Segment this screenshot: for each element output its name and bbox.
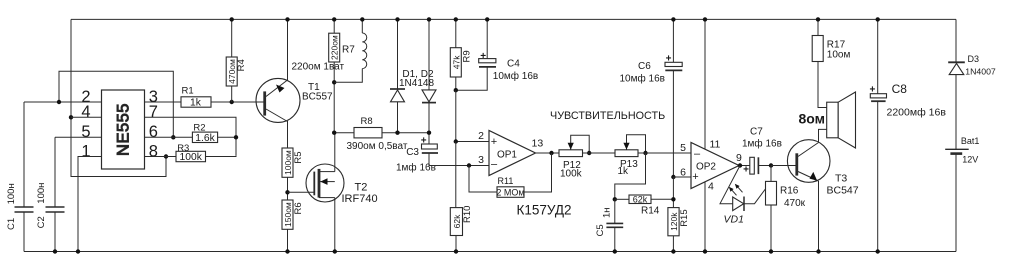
transistor T3 BC547 [771,140,859,197]
node T1 emitter rail junction [285,17,289,21]
wire pin6 line [673,176,691,178]
node R6 ground junction [285,249,289,253]
svg-text:D3: D3 [968,54,980,64]
node pin4 ground junction [703,249,707,253]
svg-text:R6: R6 [293,202,304,214]
wire pin 7 to R2/R3 column [145,117,237,156]
svg-text:220ом: 220ом [330,35,340,60]
capacitor C3 1мф 16в [396,136,489,174]
wire pin 3 line [145,101,182,103]
node C7 right junction [769,163,773,167]
svg-text:R14: R14 [641,206,660,217]
svg-text:1мф 16в: 1мф 16в [742,138,782,150]
node pin2 junction [57,100,61,104]
svg-text:Bat1: Bat1 [961,136,980,146]
svg-text:1k: 1k [618,166,630,177]
wire left rail corner down to pin 4 [70,19,72,117]
capacitor C2 [36,137,65,253]
wire R2 right lead [218,136,236,138]
svg-text:+: + [692,171,698,183]
svg-text:R8: R8 [361,116,373,127]
svg-text:R2: R2 [193,122,205,133]
node R14 right junction [671,197,675,201]
node OP1 pin2 junction [454,139,458,143]
wire pin6 node down to R14 right / R15 [672,177,674,208]
svg-text:C2: C2 [36,216,47,228]
svg-text:390ом 0,5ват: 390ом 0,5ват [347,141,408,152]
svg-text:R9: R9 [462,50,473,62]
wire P13 node to OP2 pin 5 [638,152,691,154]
wire pin2-pin6 tie over chip [59,71,173,137]
node pin4 junction [69,115,73,119]
wire pin 5 line [55,136,102,138]
svg-text:R4: R4 [236,59,247,71]
svg-text:R15: R15 [679,209,690,226]
svg-text:C1: C1 [6,218,17,230]
svg-text:OP2: OP2 [696,162,716,173]
svg-text:+: + [491,136,497,148]
capacitor C4 10мф 16в [456,17,538,90]
svg-text:IRF740: IRF740 [342,193,378,205]
svg-text:+: + [666,53,672,64]
svg-text:C4: C4 [507,59,520,70]
svg-text:47k: 47k [451,55,461,69]
node R7 coil junction [332,80,336,84]
svg-text:1мф 16в: 1мф 16в [396,162,436,174]
potentiometer P13 1k [615,135,646,177]
svg-text:C3: C3 [406,147,419,158]
svg-text:R3: R3 [177,143,189,154]
speaker 8ом [799,92,856,148]
svg-text:62k: 62k [452,214,462,228]
svg-text:К157УД2: К157УД2 [517,203,572,218]
svg-text:1: 1 [81,142,90,160]
svg-text:11: 11 [710,139,721,151]
svg-text:470к: 470к [784,198,806,209]
svg-text:100н: 100н [6,183,17,204]
wire top supply rail [71,18,956,20]
svg-text:BC547: BC547 [827,185,859,197]
capacitor C7 1мф 16в [742,127,782,176]
svg-text:5: 5 [680,142,686,154]
svg-text:100k: 100k [180,152,203,163]
wire R5 to R6 [287,177,289,200]
node T3 emitter ground junction [816,249,820,253]
svg-text:4: 4 [81,103,90,121]
resistor R5 100ом [282,148,304,177]
chip NE555 U1 [102,90,145,169]
svg-text:OP1: OP1 [497,150,517,161]
node OP2 output junction [738,163,742,167]
node R11 tap junction [467,163,471,167]
wire R1 to T1 base [211,101,265,103]
node pin6 junction [171,135,175,139]
resistor R16 470к [766,166,806,254]
wire pin 6 line [145,136,193,138]
wire OP2 pin 4 to ground [704,182,706,252]
resistor R2 1.6k [192,122,217,144]
svg-text:+: + [869,84,875,95]
node pin1 ground junction [76,249,80,253]
svg-text:С5: С5 [595,224,606,236]
svg-text:220ом 1ват: 220ом 1ват [292,62,345,73]
resistor R7 220ом 1ват [292,17,356,133]
wire OP1 output [536,152,560,154]
node R14 left junction [613,197,617,201]
svg-text:2200мф 16в: 2200мф 16в [887,106,947,118]
svg-text:–: – [694,148,701,160]
wire R6 to ground [287,229,289,251]
wire bottom ground rail [24,251,956,253]
svg-text:C7: C7 [750,127,763,138]
svg-text:7: 7 [149,103,158,121]
wire pin 1 line to ground [78,157,102,252]
wire T2 source to ground [334,198,336,252]
wire pin4-pin8 tie under chip [71,117,166,176]
inductor L search coil [334,17,367,82]
led VD1 [720,166,771,226]
node OP1 output junction [549,151,553,155]
svg-text:C8: C8 [892,82,908,96]
svg-text:8ом: 8ом [799,111,826,127]
svg-text:C6: C6 [638,61,651,72]
svg-text:10мф 16в: 10мф 16в [620,73,665,85]
svg-text:13: 13 [532,138,544,150]
svg-text:VD1: VD1 [724,213,744,225]
svg-text:1н: 1н [602,207,613,218]
capacitor C6 10мф 16в [620,17,683,177]
wire T2 drain column [334,133,336,172]
svg-text:R11: R11 [498,176,514,186]
svg-text:1.6k: 1.6k [195,133,215,144]
resistor R10 62k [450,206,473,254]
wire T3 emitter to ground [818,181,820,252]
resistor R11 2 МОм feedback [469,153,552,197]
node R9 C4 junction [454,88,458,92]
node T2 gate junction [285,190,289,194]
battery Bat1 12V [945,136,979,252]
svg-text:+: + [421,136,427,147]
node R2 right junction [234,135,238,139]
svg-text:10ом: 10ом [827,49,851,60]
op-amp OP1 [478,130,543,176]
capacitor C8 2200мф 16в [869,17,946,254]
svg-text:T3: T3 [835,173,847,185]
svg-text:R5: R5 [293,151,304,163]
svg-text:1k: 1k [190,98,202,109]
transistor T1 BC557 [256,78,333,122]
resistor R15 120k [668,208,690,254]
svg-text:+: + [480,51,486,62]
svg-text:BC557: BC557 [302,92,333,103]
resistor R6 150ом [282,200,304,229]
node R4 bottom junction [230,100,234,104]
svg-text:10мф 16в: 10мф 16в [493,70,538,82]
capacitor C1 [6,102,33,252]
resistor R4 470ом [226,17,247,102]
wire T1 collector to R5 [287,121,289,148]
svg-text:3: 3 [478,154,484,166]
svg-text:100k: 100k [560,169,583,180]
wire P12 to P13 [583,152,616,154]
svg-text:1N4007: 1N4007 [965,66,996,76]
svg-text:NE555: NE555 [115,103,133,156]
wire R9/C4 node down to pin2 of OP1 [456,90,489,141]
svg-text:120k: 120k [669,212,679,231]
transistor T2 IRF740 [288,164,378,205]
capacitor C5 1н [595,199,623,253]
svg-text:R1: R1 [182,86,194,97]
wire P13 node jog down to R14/C5 node [615,153,646,199]
node OP2 pin6 junction [671,175,675,179]
svg-text:62k: 62k [633,194,648,204]
wire pin 8 line [145,156,177,158]
wire R3 right lead [206,155,237,158]
node pin8 junction [164,154,168,158]
diode D1 1N4148 [390,17,405,135]
svg-text:T2: T2 [355,182,368,194]
wire pin 4 line [71,116,102,118]
node P13 right junction [643,151,647,155]
svg-text:6: 6 [680,167,686,179]
wire pin2 node down to R10 [455,142,457,208]
resistor R8 390ом 0,5ват [332,116,429,152]
node T2 source ground junction [333,249,337,253]
svg-text:100н: 100н [36,183,47,204]
wire pin 2 line [24,101,102,103]
node pin11 rail junction [703,17,707,21]
op-amp OP2 [680,139,742,193]
svg-text:12V: 12V [962,155,978,165]
svg-text:2: 2 [478,130,484,142]
svg-text:100ом: 100ом [283,150,293,175]
svg-text:2 МОм: 2 МОм [496,187,524,197]
svg-text:8: 8 [149,142,158,160]
svg-text:+: + [743,165,749,176]
svg-text:6: 6 [149,123,158,141]
svg-text:ЧУВСТВИТЕЛЬНОСТЬ: ЧУВСТВИТЕЛЬНОСТЬ [550,110,665,122]
resistor R17 10ом [812,17,850,107]
resistor R9 47k [450,17,472,90]
svg-text:1N4148: 1N4148 [399,78,434,89]
wire T1 emitter to top rail [287,19,289,80]
diode D2 1N4148 [422,17,436,144]
svg-text:R10: R10 [462,206,473,223]
wire OP2 pin 11 supply from top rail [704,19,706,149]
svg-text:R7: R7 [342,45,355,56]
svg-text:R16: R16 [780,186,799,197]
node P12 right junction [587,151,591,155]
resistor R1 1k [181,86,211,109]
svg-text:5: 5 [81,123,90,141]
wire T3 collector up to speaker [819,129,827,142]
svg-text:4: 4 [708,181,714,193]
resistor R14 62k [615,194,674,216]
diode D3 1N4007 [948,19,996,149]
potentiometer P12 100k [559,135,589,179]
resistor R3 100k [176,143,206,163]
wire OP2 output [739,165,750,167]
svg-text:150ом: 150ом [283,202,293,227]
svg-text:9: 9 [736,152,742,164]
